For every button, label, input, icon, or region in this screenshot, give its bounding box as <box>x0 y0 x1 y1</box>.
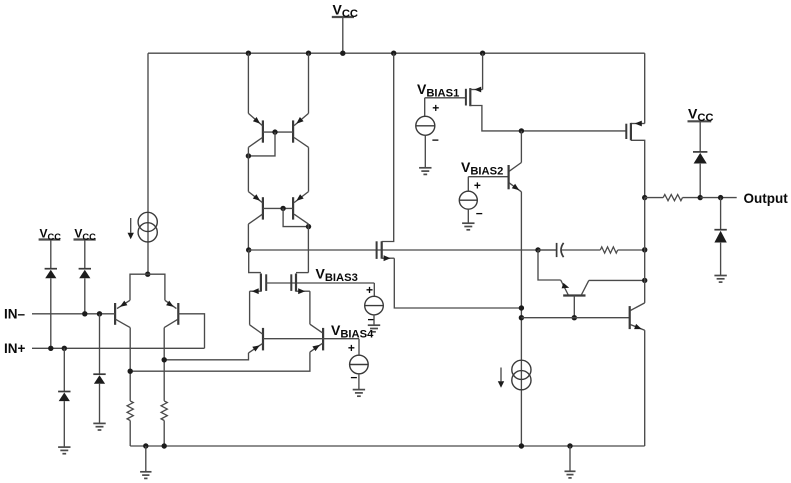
svg-text:+: + <box>366 283 373 297</box>
node IN+ to D4 <box>62 346 67 351</box>
power VCC symbol (output clamp) <box>688 120 712 122</box>
transistor Qc2 collector <box>310 324 323 333</box>
transistor Qvb2 emitter <box>509 183 521 192</box>
mosfet M3 channel bar <box>295 274 297 292</box>
transistor QM3 collector <box>248 214 262 224</box>
wire IN+ to diode D4 <box>63 348 65 391</box>
wire D2 to IN- <box>84 278 86 314</box>
power VCC symbol (input clamp 2) <box>74 238 96 240</box>
mosfet M4 source with arrow <box>382 257 395 259</box>
voltage source V1 (VBIAS1) <box>424 98 426 117</box>
wire mirror left to M2 drain <box>247 224 249 250</box>
wire VCC1 to diode D1 <box>50 240 52 269</box>
wire gate line to compensation node <box>249 249 557 251</box>
wire VCC2 to diode D2 <box>84 240 86 269</box>
mosfet M3 source with arrow <box>296 290 310 292</box>
wire QM34 base to right collector <box>283 208 308 226</box>
wire D4 to ground <box>63 401 65 447</box>
node QM34 base-collector join <box>306 224 311 229</box>
voltage source V4 (VBIAS4) <box>358 339 360 356</box>
mosfet M2 gate bar <box>265 274 267 291</box>
node Qsc base junction <box>572 315 577 320</box>
transistor QM1 collector <box>248 138 262 148</box>
mosfet M2 source with arrow <box>250 290 261 292</box>
node rail-R2 <box>162 443 167 448</box>
transistor Qc2 emitter <box>310 343 323 352</box>
wire Qvb2 emitter down to I2 and rail <box>520 192 522 446</box>
transistor QM1 emitter <box>248 113 262 125</box>
node rail-VCC <box>340 51 345 56</box>
svg-text:VCC: VCC <box>74 226 96 242</box>
node rail-I2 <box>519 443 524 448</box>
wire QM base to left collector <box>248 132 275 156</box>
transistor QM1 (PNP mirror top-left) bar <box>262 120 264 142</box>
diode D2 <box>79 268 91 270</box>
node rail-right-mirror <box>306 51 311 56</box>
wire VBIAS2 base lead <box>468 176 508 178</box>
node output R junction <box>642 195 647 200</box>
wire mirror left emitter feed <box>247 53 249 113</box>
wire M4 drain to rail <box>382 53 394 241</box>
node QM base-collector join <box>246 153 251 158</box>
node M4 source junction <box>519 305 524 310</box>
wire comp node down to Qsc emitter <box>538 250 561 280</box>
wire M4 source to VBIAS2 emitter node <box>394 258 521 308</box>
node D2-IN- <box>82 311 87 316</box>
wire cap to Rz <box>561 249 600 251</box>
wire Qc1 emitter to diff <box>164 353 248 360</box>
svg-text:IN–: IN– <box>4 307 26 322</box>
mosfet M1 channel bar <box>469 88 471 106</box>
wire D5 to output node <box>699 164 701 198</box>
current source I2 <box>512 360 531 379</box>
wire mirror right to M3 drain <box>307 224 309 273</box>
resistor Rout <box>663 195 682 201</box>
ground (bottom mid) <box>565 470 576 472</box>
ground (D4) <box>58 446 70 448</box>
svg-text:VCC: VCC <box>40 226 62 242</box>
wire Q2 base loop to IN+ <box>178 314 204 349</box>
node rail-M4-drain <box>391 51 396 56</box>
svg-text:−: − <box>476 207 483 221</box>
node output-diode-down <box>718 195 723 200</box>
svg-text:+: + <box>474 179 481 193</box>
transistor Q1 emitter <box>117 300 130 308</box>
transistor Qsc base lead <box>573 296 575 318</box>
node diff tail <box>145 272 150 277</box>
wire rail ground stub 2 <box>569 446 571 471</box>
node QM base tie <box>272 129 277 134</box>
wire diff emitter bus <box>130 274 165 300</box>
transistor QM4 (PNP mirror bottom-right) bar <box>292 197 294 219</box>
wire mirror right mid <box>308 147 310 191</box>
svg-text:−: − <box>350 371 357 385</box>
svg-text:+: + <box>432 101 439 115</box>
mosfet M5 gate bar <box>625 124 627 139</box>
wire D3 to ground <box>99 384 101 424</box>
node Q2 collector junction <box>162 357 167 362</box>
node output-VCC-diode <box>698 195 703 200</box>
transistor QM3 (PNP mirror bottom-left) bar <box>262 197 264 219</box>
transistor Q2 (PNP input right) bar <box>177 303 179 325</box>
node base line junction <box>519 315 524 320</box>
ground (D6) <box>714 275 726 277</box>
node rail-left-mirror <box>246 51 251 56</box>
ground (bottom left) <box>140 471 151 473</box>
transistor QM2 (PNP mirror top-right) bar <box>292 120 294 142</box>
transistor Q1 (PNP input left) bar <box>114 303 116 325</box>
wire base line to output NPN <box>521 317 629 319</box>
transistor QM4 collector <box>294 214 308 224</box>
wire M1 source to rail <box>482 53 484 89</box>
transistor Qc1 emitter <box>249 344 263 353</box>
transistor Q2 emitter <box>165 300 177 308</box>
diode D1 <box>45 268 57 270</box>
wire top VCC rail <box>148 52 645 54</box>
mosfet M3 gate bar <box>290 274 292 291</box>
svg-text:+: + <box>348 341 355 355</box>
transistor QM2 emitter <box>294 113 308 125</box>
mosfet M2 channel bar <box>260 274 262 292</box>
transistor QM3 emitter <box>248 192 262 203</box>
transistor Qout (NPN) bar <box>629 306 631 329</box>
wire IN- lead <box>32 313 115 315</box>
node right vertical / Rz <box>642 247 647 252</box>
transistor Qsc (PNP) emitter diag <box>561 280 569 295</box>
wire comp node to cap <box>538 249 557 251</box>
wire Qc1-Qc2 base line to VBIAS4 <box>263 338 359 340</box>
transistor Qvb2 (NPN) bar <box>508 165 510 189</box>
node QM34 base tie <box>280 206 285 211</box>
wire bottom rail <box>130 445 645 447</box>
capacitor C1 plate <box>556 243 558 257</box>
wire M5 drain vertical <box>644 198 646 303</box>
transistor Qc1 (PNP cascode left) bar <box>262 328 264 351</box>
wire Qc2 emitter to diff <box>130 352 310 371</box>
mosfet M4 gate bar <box>376 241 378 259</box>
node D1-IN+ <box>48 346 53 351</box>
transistor Qc2 (PNP cascode right) bar <box>322 328 324 351</box>
node rail-ground <box>143 443 148 448</box>
wire M2 source down to Qc1 collector <box>249 291 251 325</box>
node IN- to D3 <box>97 311 102 316</box>
diode D4 <box>58 391 70 393</box>
wire D1 to IN+ <box>50 278 52 348</box>
wire Qout emitter to bottom rail <box>644 330 646 446</box>
power VCC symbol (input clamp 1) <box>39 238 61 240</box>
transistor Qc1 collector <box>250 325 263 334</box>
transistor Qsc collector <box>581 280 589 295</box>
transistor QM2 collector <box>294 138 308 148</box>
mosfet M1 gate bar <box>465 89 467 106</box>
node Q1 collector junction <box>128 369 133 374</box>
wire QM3-QM4 base tie <box>263 207 293 209</box>
transistor Qout collector <box>630 303 645 311</box>
node compensation node <box>535 247 540 252</box>
mosfet M5 channel bar <box>630 123 632 140</box>
node rail-M1-source <box>480 51 485 56</box>
svg-text:VCC: VCC <box>688 105 714 124</box>
voltage source V2 (VBIAS2) <box>467 177 469 192</box>
wire output to diode D6 <box>720 198 722 230</box>
wire M2 drain lead <box>249 250 261 273</box>
svg-text:VBIAS1: VBIAS1 <box>417 81 459 100</box>
wire IN+ lead <box>32 347 205 349</box>
ground (D3) <box>93 422 105 424</box>
svg-text:VBIAS3: VBIAS3 <box>316 266 358 285</box>
wire QM1-QM2 base tie <box>263 131 293 133</box>
wire M3 drain lead <box>296 272 308 274</box>
wire mirror right emitter feed <box>308 53 310 113</box>
wire Q2 collector to R2 <box>163 328 165 401</box>
capacitor C1 curved plate <box>561 243 564 257</box>
wire rail to M5 source <box>644 53 646 123</box>
wire mirror left mid <box>247 147 249 191</box>
svg-text:IN+: IN+ <box>4 341 26 356</box>
resistor R2 <box>161 401 167 421</box>
wire M1 drain to gate-drive line <box>470 106 626 131</box>
transistor Qout emitter <box>630 325 645 331</box>
svg-text:−: − <box>432 133 439 147</box>
voltage source V3 (VBIAS3) <box>373 283 375 296</box>
current source I1 <box>138 212 157 231</box>
transistor Qvb2 collector <box>509 163 521 172</box>
transistor Q2 collector <box>164 319 178 327</box>
transistor QM4 emitter <box>294 192 308 203</box>
transistor Qsc bar <box>563 294 585 296</box>
wire Rz to output device line <box>618 249 645 251</box>
wire VBIAS1 gate lead <box>425 97 466 99</box>
node rail-ground-2 <box>567 443 572 448</box>
mosfet M4 channel bar <box>381 241 383 258</box>
wire gate line VBIAS3 <box>266 282 374 284</box>
resistor Rz <box>600 247 617 253</box>
wire rail ground stub <box>145 446 147 472</box>
wire R1 to bottom rail <box>129 421 131 447</box>
svg-text:VCC: VCC <box>333 2 359 21</box>
diode D6 <box>714 229 726 231</box>
wire IN- to diode D3 <box>99 314 101 374</box>
wire R2 to bottom rail <box>163 421 165 447</box>
node second-stage gate line left <box>246 247 251 252</box>
mosfet M1 source with arrow <box>470 89 482 91</box>
wire M5 drain down <box>631 140 645 197</box>
wire left branch from rail to I1 and diff pair <box>147 53 149 274</box>
transistor Q1 collector <box>116 319 131 327</box>
power VCC symbol (top) <box>332 16 354 18</box>
node right vertical / Qsc collector <box>642 278 647 283</box>
wire Rout leads <box>645 197 664 199</box>
wire output node <box>700 197 737 199</box>
resistor R1 <box>127 401 133 421</box>
wire M3 source down to Qc2 collector <box>309 291 311 324</box>
wire VCC to diode D5 <box>699 121 701 152</box>
wire Q1 collector to R1 <box>129 328 131 401</box>
wire D6 to ground <box>720 243 722 276</box>
svg-text:VBIAS2: VBIAS2 <box>461 159 503 178</box>
node gate-drive line / Qvb2 collector <box>519 128 524 133</box>
mosfet M5 source with arrow <box>631 123 645 125</box>
diode D5 <box>693 151 707 153</box>
svg-text:Output: Output <box>744 191 789 206</box>
diode D3 <box>93 373 105 375</box>
